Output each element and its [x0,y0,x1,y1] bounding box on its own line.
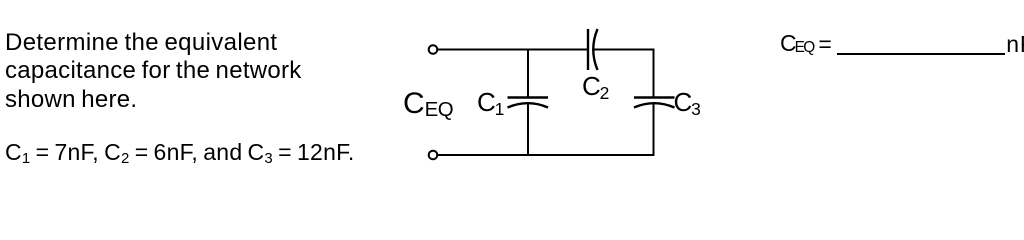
capacitor C1 [508,98,549,108]
component values text [5,138,355,167]
problem statement text [5,29,302,115]
wire top right (C2 right plate to corner) [594,49,655,51]
wire top (terminal to C2 left plate) [437,49,588,51]
wire C1 branch lower [527,104,529,156]
wire right rail lower [653,104,655,156]
label C1 [477,89,504,115]
wire right rail upper [653,49,655,98]
label C2 [582,73,609,99]
answer unit nF [1006,33,1024,56]
terminal top-left [429,45,438,54]
label C3 [674,89,701,115]
terminal bottom-left [429,151,438,160]
capacitor C3 [634,98,675,108]
label CEQ [403,89,453,119]
wire C1 branch upper [527,49,529,98]
wire bottom [437,154,654,156]
answer blank line [837,53,1005,55]
capacitor C2 [588,29,598,70]
answer label CEQ = [780,32,832,55]
